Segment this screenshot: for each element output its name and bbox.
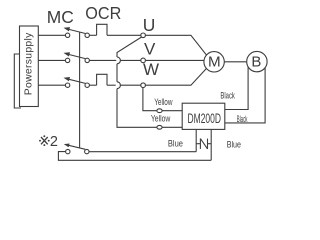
- wire row1 to OCR: [89, 34, 96, 36]
- power supply bracket: [14, 54, 21, 108]
- svg-text:U: U: [143, 15, 156, 35]
- MC mechanical link: [79, 32, 81, 148]
- wire row3 to OCR: [89, 84, 96, 86]
- contactor MC pole 2: [65, 58, 69, 62]
- wire M to B: [224, 61, 246, 63]
- yellow lead terminal upper: [157, 109, 162, 113]
- connector symbol: [196, 143, 200, 145]
- svg-text:Blue: Blue: [168, 138, 183, 149]
- contactor MC pole 1: [65, 33, 69, 37]
- svg-text:Black: Black: [220, 91, 235, 102]
- wire black upper: [225, 67, 248, 110]
- wire switch to bottom: [58, 152, 211, 161]
- wire vertical tap: [116, 64, 118, 82]
- svg-text:Black: Black: [237, 114, 248, 125]
- svg-text:B: B: [251, 54, 261, 71]
- brake B circle: [247, 51, 267, 71]
- motor M circle: [204, 52, 224, 72]
- switch *2: [85, 149, 89, 153]
- wire row2: [89, 59, 116, 61]
- svg-text:MC: MC: [47, 7, 74, 27]
- wire V to motor: [145, 59, 204, 61]
- wire U tap diagonal: [117, 37, 142, 57]
- wire crossover hop row2: [117, 57, 120, 64]
- contactor MC pole 3: [65, 83, 69, 87]
- svg-text:DM200D: DM200D: [188, 111, 222, 126]
- power supply box: [20, 26, 39, 107]
- svg-text:Yellow: Yellow: [154, 97, 172, 108]
- node W terminal: [141, 83, 146, 88]
- node U terminal: [141, 33, 146, 38]
- svg-text:OCR: OCR: [85, 3, 121, 23]
- wire tap down to yellow: [117, 89, 182, 128]
- node V terminal: [141, 58, 146, 63]
- wire row3 after crossover: [120, 84, 141, 86]
- brake pack DM200D box: [182, 103, 225, 129]
- svg-text:Blue: Blue: [227, 139, 241, 150]
- wire W tap down to yellow: [143, 88, 182, 111]
- wire black lower: [225, 68, 265, 123]
- label *2 reference mark: [41, 137, 48, 144]
- svg-text:Powersupply: Powersupply: [23, 32, 34, 95]
- wire S-phase from supply: [38, 59, 65, 61]
- OCR heater element row1: [97, 24, 107, 35]
- svg-text:2: 2: [50, 134, 58, 150]
- svg-text:W: W: [143, 60, 159, 79]
- wire R-phase from supply: [38, 34, 65, 36]
- wire row2 after crossover: [120, 59, 140, 61]
- yellow lead terminal lower: [157, 125, 162, 129]
- wire T-phase from supply: [38, 84, 65, 86]
- wire row3 OCR to crossover: [107, 84, 116, 86]
- wire crossover hop row3: [117, 82, 120, 89]
- svg-text:Yellow: Yellow: [151, 113, 170, 124]
- wire W to motor: [145, 68, 207, 85]
- OCR heater element row3: [97, 74, 107, 85]
- svg-text:V: V: [144, 40, 156, 59]
- svg-text:M: M: [208, 54, 221, 71]
- wire blue right vertical: [210, 129, 212, 160]
- wire U to motor: [145, 35, 207, 55]
- wire blue mid line: [89, 151, 196, 153]
- wire row1 OCR to U: [107, 34, 141, 36]
- wire blue left vertical: [195, 129, 197, 151]
